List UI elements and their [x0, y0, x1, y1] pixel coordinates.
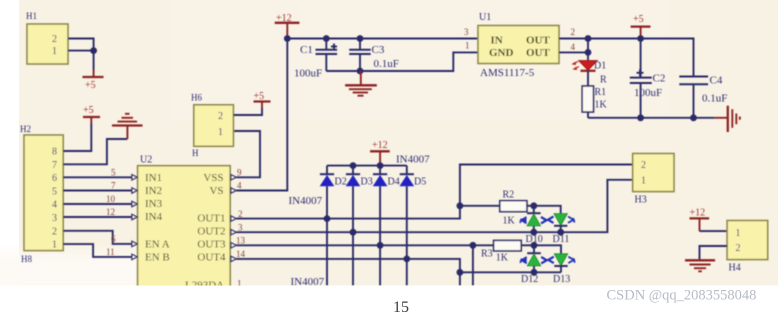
svg-text:2: 2 [218, 111, 223, 122]
svg-text:CSDN @qq_2083558048: CSDN @qq_2083558048 [607, 288, 757, 304]
svg-text:H: H [192, 148, 199, 158]
node D4/OUT3 [377, 242, 384, 249]
diode D2 (1N4007) [320, 166, 347, 188]
wire OUT3 branch down [472, 245, 474, 285]
wire D4 cathode down [379, 186, 381, 285]
node C3 bottom [357, 68, 364, 75]
node +12 [284, 35, 291, 42]
power +12 (H4) [690, 208, 710, 232]
svg-text:AMS1117-5: AMS1117-5 [480, 67, 535, 79]
wire U1 pin4 [559, 51, 588, 53]
pin arrows U2 right [231, 175, 237, 262]
svg-text:OUT1: OUT1 [197, 212, 225, 224]
svg-text:D5: D5 [414, 177, 426, 188]
svg-text:H4: H4 [729, 263, 741, 274]
svg-text:+5: +5 [633, 14, 644, 25]
svg-text:13: 13 [236, 236, 246, 246]
wire H2 pin7 to ground [63, 139, 127, 164]
node +5/C2 top [637, 35, 644, 42]
svg-text:U2: U2 [140, 155, 152, 166]
node OUT4 corner [457, 269, 464, 276]
svg-text:D3: D3 [361, 177, 373, 188]
svg-text:5: 5 [111, 168, 116, 178]
svg-text:0.1uF: 0.1uF [374, 58, 399, 70]
capacitor C4 [679, 75, 727, 118]
power +5 (above C2) [631, 14, 651, 39]
node C1 top [323, 35, 330, 42]
wire H3 pin2 [460, 165, 633, 206]
LED D10 [520, 206, 547, 245]
pin arrows U2 left [132, 175, 138, 260]
svg-text:11: 11 [106, 247, 115, 257]
svg-text:C3: C3 [372, 44, 385, 56]
capacitor C2 [630, 39, 666, 118]
svg-text:D12: D12 [521, 274, 538, 285]
wire D12-D13 top rail [534, 245, 561, 254]
svg-text:1K: 1K [496, 253, 509, 264]
wire H2 pin1 to U2 EN B [63, 244, 132, 257]
node D10 bottom [530, 229, 537, 236]
power +5 (above H2) [83, 105, 100, 123]
svg-text:H2: H2 [20, 124, 31, 134]
svg-text:D13: D13 [553, 274, 570, 285]
svg-text:EN B: EN B [145, 251, 170, 263]
svg-text:4: 4 [237, 181, 242, 191]
node D11 bottom [557, 229, 564, 236]
svg-text:15: 15 [393, 299, 409, 316]
connector H6 [191, 93, 233, 159]
connector H3 [633, 154, 674, 206]
wire diode top rail [327, 165, 407, 167]
svg-text:R3: R3 [481, 249, 493, 260]
svg-text:OUT2: OUT2 [197, 225, 225, 237]
svg-text:0.1uF: 0.1uF [702, 93, 727, 105]
svg-text:H6: H6 [191, 93, 202, 103]
svg-text:IN2: IN2 [145, 185, 162, 197]
svg-text:U1: U1 [479, 12, 491, 23]
svg-text:6: 6 [111, 234, 116, 244]
svg-text:D11: D11 [553, 234, 570, 245]
resistor R2 [500, 190, 534, 227]
node pin2 tie [585, 35, 592, 42]
diode D3 (1N4007) [346, 166, 373, 188]
svg-text:8: 8 [52, 147, 57, 158]
connector H2 [20, 124, 63, 264]
svg-text:+5: +5 [85, 80, 96, 91]
svg-text:1: 1 [465, 41, 470, 51]
node D2/OUT1 [324, 215, 331, 222]
wire OUT4 branch down [459, 272, 461, 285]
svg-text:+12: +12 [372, 140, 388, 151]
resistor R1 [582, 71, 607, 118]
svg-text:OUT4: OUT4 [197, 251, 226, 263]
bottom white strip [0, 286, 783, 316]
node D10 top [530, 202, 537, 209]
wire H2 pin4 to U2 IN3 [63, 203, 132, 205]
svg-text:H1: H1 [26, 11, 37, 21]
svg-text:IN4007: IN4007 [396, 154, 430, 166]
svg-text:OUT: OUT [526, 35, 551, 47]
svg-text:3: 3 [238, 222, 243, 232]
wire H2 pin3 to U2 IN4 [63, 216, 132, 218]
wire OUT3 [236, 244, 493, 246]
wire U2 VSS to H6 pin1 [233, 131, 260, 177]
wire H1 pin2 [68, 39, 94, 51]
svg-text:3: 3 [52, 213, 57, 224]
svg-text:2: 2 [52, 226, 57, 237]
svg-text:EN A: EN A [145, 238, 170, 250]
power +5 (above H6) [254, 91, 271, 108]
ground (near H2, pyramid) [112, 114, 143, 139]
wire D2 cathode down [326, 186, 328, 285]
svg-text:7: 7 [52, 160, 57, 171]
svg-text:3: 3 [464, 27, 469, 37]
LED D13 [548, 254, 575, 285]
wire row2 bottom rail [460, 271, 561, 273]
svg-text:100uF: 100uF [634, 87, 662, 99]
svg-text:5: 5 [52, 186, 57, 197]
node C2 bottom [637, 114, 644, 121]
wire +12 to H4 pin1 [700, 230, 728, 232]
wire H2 pin5 to U2 IN2 [63, 190, 132, 192]
wire OUT1 [236, 206, 499, 219]
wire D3 cathode down [352, 186, 354, 285]
svg-text:1: 1 [52, 46, 57, 57]
svg-text:OUT: OUT [526, 47, 551, 59]
node D3 top [350, 162, 357, 169]
svg-text:IN: IN [491, 35, 503, 47]
wire H1 to +5 [93, 51, 95, 70]
svg-text:VSS: VSS [203, 172, 223, 184]
svg-text:R2: R2 [503, 190, 515, 201]
power +5 (below H1) [83, 70, 104, 91]
svg-text:1K: 1K [503, 216, 516, 227]
node D12 bottom [531, 269, 538, 276]
node OUT3 branch [470, 242, 477, 249]
op-amp U2 (L293D driver) [138, 155, 231, 292]
ground (right, rotated) [715, 106, 740, 132]
wire H2 pin2 to U2 EN A [63, 231, 132, 244]
wire +12 rail to U1 pin3 [287, 38, 480, 40]
diode D4 (1N4007) [373, 166, 400, 188]
node D5/OUT4 [403, 256, 410, 263]
svg-text:14: 14 [236, 249, 246, 259]
svg-text:1K: 1K [595, 100, 608, 111]
svg-text:4: 4 [52, 200, 57, 211]
svg-text:H3: H3 [635, 195, 647, 206]
svg-text:1: 1 [736, 228, 741, 239]
wire U1 pin2 +5 rail [559, 39, 694, 77]
svg-text:R: R [600, 75, 607, 86]
svg-text:2: 2 [641, 160, 646, 171]
capacitor C1 [294, 39, 337, 80]
svg-text:GND: GND [489, 47, 514, 59]
node C3 top [357, 35, 364, 42]
wire H2 pin8 to +5 [63, 123, 91, 151]
node D3/OUT2 [350, 229, 357, 236]
svg-text:D2: D2 [335, 177, 347, 188]
node D12 top [531, 242, 538, 249]
svg-text:+5: +5 [83, 105, 94, 116]
svg-text:VS: VS [209, 185, 223, 197]
svg-text:C4: C4 [710, 75, 723, 87]
LED D12 [520, 245, 547, 285]
svg-text:6: 6 [52, 173, 57, 184]
ground (below H4) [685, 260, 715, 271]
svg-text:1: 1 [641, 176, 646, 187]
svg-text:9: 9 [237, 168, 242, 178]
svg-text:C1: C1 [300, 44, 313, 56]
wire D5 cathode down [406, 186, 408, 285]
svg-text:1: 1 [218, 127, 223, 138]
node OUT1/H3 [457, 202, 464, 209]
svg-text:OUT3: OUT3 [197, 238, 226, 250]
svg-text:2: 2 [571, 27, 576, 37]
node C4 bottom [690, 114, 697, 121]
capacitor C3 [349, 39, 399, 72]
wire H6 pin2 to +5 [233, 108, 262, 115]
diode D5 (1N4007) [400, 166, 427, 188]
svg-text:2: 2 [736, 243, 741, 254]
wire H4 pin2 to ground [700, 246, 728, 260]
wire +5 bottom rail [588, 117, 715, 119]
svg-text:100uF: 100uF [294, 68, 322, 80]
svg-text:R1: R1 [595, 87, 607, 98]
wire H2 pin6 to U2 IN1 [63, 176, 132, 178]
wire pin2-pin4 tie [587, 39, 589, 53]
wire H1 pin1 [68, 50, 94, 52]
svg-text:D1: D1 [594, 61, 606, 72]
LED D11 [548, 214, 575, 245]
svg-text:IN3: IN3 [145, 198, 163, 210]
svg-text:2: 2 [52, 34, 57, 45]
svg-text:1: 1 [52, 240, 57, 251]
node pin4 tie [585, 49, 592, 56]
svg-text:IN1: IN1 [145, 172, 162, 184]
svg-text:12: 12 [106, 207, 115, 217]
node D4 top [377, 162, 384, 169]
svg-text:10: 10 [106, 194, 116, 204]
svg-text:2: 2 [238, 209, 243, 219]
connector H4 [727, 221, 768, 274]
op-amp U1 (AMS1117-5 regulator) [478, 12, 559, 79]
resistor R3 [481, 240, 534, 263]
svg-text:7: 7 [111, 181, 116, 191]
power +12 (top) [275, 13, 300, 39]
power +12 (above diodes) [370, 140, 390, 166]
svg-text:+12: +12 [690, 208, 706, 219]
wire D10-D11 top rail [534, 206, 561, 214]
wire U2 VS to +12 node [236, 39, 287, 191]
svg-text:D4: D4 [388, 177, 400, 188]
ground (below C3) [345, 71, 377, 96]
wire OUT4 [236, 259, 460, 272]
LED D1 [573, 52, 606, 71]
svg-text:H8: H8 [21, 254, 32, 264]
svg-text:IN4007: IN4007 [289, 195, 323, 207]
connector H1 [26, 11, 68, 64]
wire OUT2 [236, 180, 632, 232]
svg-text:C2: C2 [653, 73, 666, 85]
svg-text:IN4: IN4 [145, 211, 163, 223]
wire C1/C3 bottoms to U1 GND [326, 52, 480, 71]
node H1 junction [90, 47, 97, 54]
svg-text:4: 4 [571, 42, 576, 52]
